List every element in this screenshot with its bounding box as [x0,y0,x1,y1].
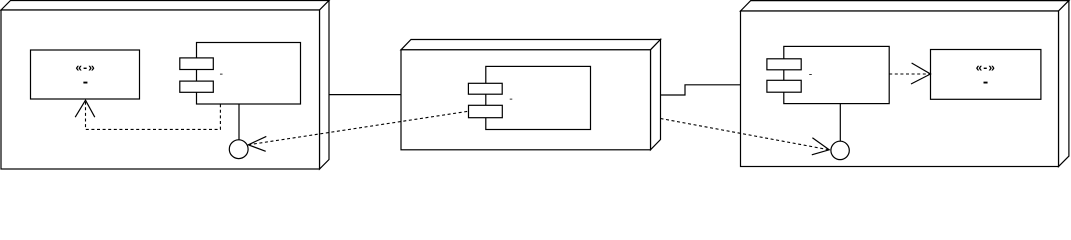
component C1 in node N1 [180,43,301,105]
connector wire W1 between node N1 and node N2 [329,94,401,96]
dashed dependency D3 from node N2 wall to circle I2 [661,119,830,150]
dashed dependency D1 from component C1 to box B1 [86,101,221,130]
svg-text:«-»: «-» [75,60,95,74]
open arrowhead of D2 at circle I1 [248,136,266,151]
interface circle I2 (lollipop) [831,141,849,159]
svg-text:«-»: «-» [976,60,996,74]
node N2 (middle 3D box) [401,40,661,150]
stereotype box B2 («-») in node N3 [931,50,1041,100]
stereotype box B1 («-») in node N1 [31,50,140,99]
open arrowhead of D3 at circle I2 [812,138,829,155]
svg-text:-: - [83,74,88,91]
open arrowhead of D1 at box B1 [75,100,95,117]
svg-text:-: - [809,68,813,80]
svg-text:-: - [509,93,513,105]
svg-text:-: - [219,68,223,80]
dashed dependency D2 from component C2 tab to circle I1 [248,111,468,145]
connector wire W2 between node N2 and node N3 (with step) [661,85,741,95]
wire stem from component C1 to interface circle I1 [238,104,240,139]
svg-text:-: - [983,74,988,91]
interface circle I1 (lollipop) [229,140,248,159]
component C3 in node N3 [767,46,889,103]
wire stem from component C3 to interface circle I2 [839,104,841,142]
node N3 (right 3D box) [741,1,1069,167]
open arrowhead of D4 at box B2 [911,63,931,84]
node N1 (left 3D box) [1,1,329,170]
dashed dependency D4 from component C3 to box B2 [889,73,930,75]
component C2 in node N2 [468,66,590,129]
